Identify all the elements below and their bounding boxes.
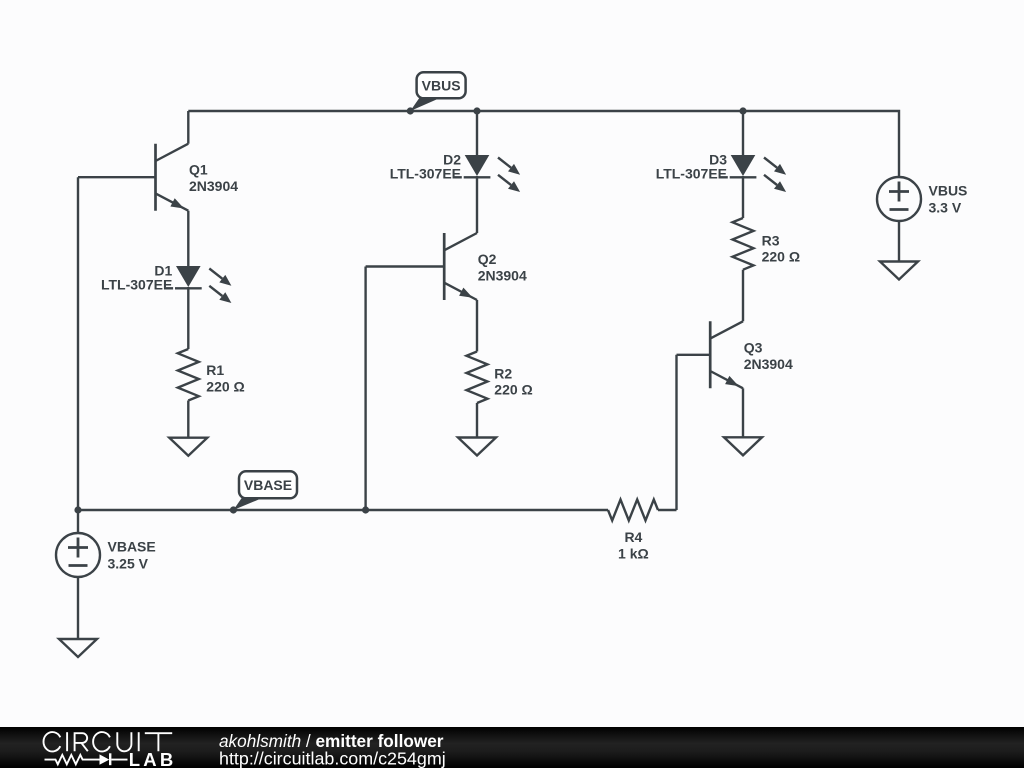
svg-text:VBASE: VBASE — [244, 477, 292, 493]
svg-text:3.25 V: 3.25 V — [108, 556, 149, 572]
svg-text:220 Ω: 220 Ω — [494, 382, 532, 398]
svg-text:R3: R3 — [762, 232, 780, 248]
svg-text:VBASE: VBASE — [108, 539, 156, 555]
svg-text:220 Ω: 220 Ω — [762, 249, 800, 265]
svg-text:Q2: Q2 — [478, 251, 497, 267]
svg-text:2N3904: 2N3904 — [744, 356, 793, 372]
svg-text:VBUS: VBUS — [929, 183, 968, 199]
svg-text:1 kΩ: 1 kΩ — [618, 545, 649, 561]
svg-text:LTL-307EE: LTL-307EE — [101, 277, 172, 293]
svg-text:LTL-307EE: LTL-307EE — [656, 166, 727, 182]
svg-text:LAB: LAB — [129, 749, 177, 768]
svg-text:Q1: Q1 — [189, 162, 208, 178]
svg-text:R1: R1 — [206, 362, 224, 378]
svg-text:2N3904: 2N3904 — [189, 178, 238, 194]
svg-text:220 Ω: 220 Ω — [206, 378, 244, 394]
svg-text:3.3 V: 3.3 V — [929, 200, 962, 216]
svg-text:LTL-307EE: LTL-307EE — [390, 166, 461, 182]
svg-text:R2: R2 — [494, 365, 512, 381]
svg-text:VBUS: VBUS — [422, 78, 461, 94]
svg-text:R4: R4 — [624, 529, 642, 545]
svg-text:2N3904: 2N3904 — [478, 268, 527, 284]
svg-text:Q3: Q3 — [744, 339, 763, 355]
svg-text:http://circuitlab.com/c254gmj: http://circuitlab.com/c254gmj — [219, 748, 446, 768]
